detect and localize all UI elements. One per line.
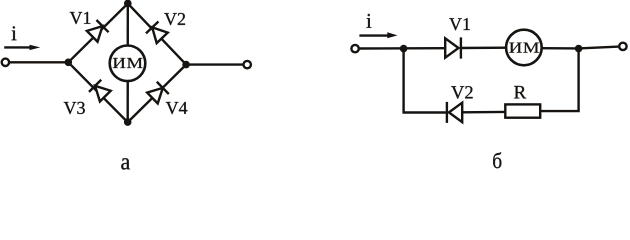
wire: left terminal to left node [9, 61, 68, 63]
diode V3 [89, 80, 111, 102]
wire: diamond top-right branch [128, 4, 186, 65]
label V1 (bridge) [70, 12, 91, 24]
label i (right circuit) [366, 14, 371, 28]
label IM (series) [509, 43, 539, 53]
wire: resistor to right vertical riser [540, 49, 579, 112]
node: output junction (series circuit) [575, 45, 583, 53]
label V2 (bridge) [164, 13, 185, 25]
wire: vertical diagonal through meter [126, 4, 129, 123]
wire: left vertical drop of parallel branch [404, 49, 447, 113]
label R [514, 86, 526, 98]
wire: right node to right terminal [186, 63, 243, 65]
wire: diamond bottom-right branch [128, 65, 186, 123]
wire: diode V2 base to resistor [462, 111, 505, 114]
caption b [493, 152, 501, 168]
left input terminal (series circuit) [351, 45, 358, 52]
caption a [121, 158, 130, 169]
label V4 (bridge) [166, 102, 188, 114]
diode V2 [146, 21, 168, 43]
label i (left circuit) [12, 26, 17, 40]
node bottom (bridge) [124, 118, 132, 126]
right output terminal (bridge) [244, 61, 251, 68]
current arrow i (right circuit) [359, 34, 388, 36]
wire: diode V1 bar to meter [461, 47, 507, 50]
wire: diamond left-bottom branch [68, 62, 127, 122]
label V2 (parallel branch) [451, 86, 472, 99]
node top (bridge) [124, 0, 132, 7]
wire: meter to right terminal [542, 47, 620, 49]
diode V1 [86, 20, 108, 42]
label V1 (series) [449, 18, 470, 30]
wire: left terminal to diode V1 [359, 47, 445, 50]
diode V4 [146, 82, 168, 104]
label V3 (bridge) [64, 102, 85, 114]
current arrow i (left circuit) [4, 46, 31, 48]
diode V1 (series) [445, 37, 461, 58]
right output terminal (series circuit) [619, 43, 626, 50]
diode V2 (parallel branch) [447, 102, 462, 123]
wire: diamond left-top branch [68, 4, 128, 63]
meter IM circle (series) [506, 30, 542, 66]
node left (bridge) [65, 59, 73, 67]
meter IM circle (bridge) [110, 46, 146, 82]
label IM (bridge) [113, 58, 143, 68]
resistor R [505, 104, 540, 117]
left input terminal (bridge) [2, 59, 9, 66]
node right (bridge) [182, 61, 190, 69]
node: input junction (series circuit) [400, 45, 408, 53]
